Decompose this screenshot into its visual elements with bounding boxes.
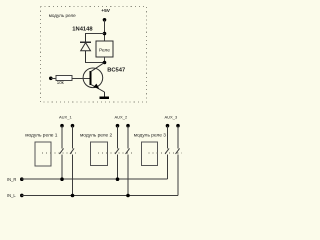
switch contact wires: module 2 left — [117, 126, 119, 149]
switch contact wires: module 3 right — [177, 126, 179, 149]
wire +5V down to node A — [104, 20, 106, 41]
wire resistor to base — [72, 77, 90, 79]
wire relay box bottom to node B — [104, 57, 106, 63]
IN_L terminal dot — [20, 194, 24, 198]
relay coil box: Реле — [96, 41, 113, 57]
diode D1 1N4148 — [80, 34, 91, 63]
module 2 coil box — [91, 142, 108, 165]
svg-text:IN_R: IN_R — [7, 177, 16, 182]
AUX_1 terminal dots — [60, 124, 64, 128]
IN_R terminal dot — [20, 177, 24, 181]
switch contact wires: module 2 right — [127, 126, 129, 149]
wire terminal to resistor — [51, 77, 56, 79]
emitter lead with arrow — [91, 84, 105, 92]
node B junction dot — [103, 61, 107, 65]
module 1 linkage dashes — [42, 152, 77, 154]
ground — [99, 97, 108, 99]
svg-text:BC547: BC547 — [107, 68, 125, 74]
switch contact wires: module 3 left — [167, 126, 169, 149]
svg-text:AUX_2: AUX_2 — [115, 115, 128, 120]
switch contact wires: module 1 left (to IN_R) — [60, 126, 180, 196]
svg-text:10k: 10k — [57, 80, 65, 85]
resistor R1 10k — [56, 76, 72, 81]
module 3 linkage dashes — [149, 152, 183, 154]
svg-text:AUX_3: AUX_3 — [165, 115, 178, 120]
svg-text:Реле: Реле — [99, 47, 110, 53]
svg-text:+5V: +5V — [101, 8, 110, 14]
junction dots on IN_L — [71, 194, 75, 198]
dashed border: relay module (top) — [41, 7, 147, 103]
svg-text:модуль реле 2: модуль реле 2 — [80, 133, 113, 139]
svg-text:1N4148: 1N4148 — [72, 27, 93, 33]
svg-text:модуль реле 3: модуль реле 3 — [134, 133, 167, 139]
switch contact wires: module 1 right (to IN_L) — [72, 126, 74, 149]
junction dots on IN_R — [60, 177, 64, 181]
transistor Q1 BC547 — [83, 63, 104, 97]
IN_R bus wire — [21, 178, 167, 180]
node A junction dot — [103, 32, 107, 36]
module 2 linkage dashes — [98, 152, 132, 154]
svg-text:AUX_1: AUX_1 — [59, 115, 72, 120]
module 3 coil box — [141, 142, 157, 165]
svg-text:IN_L: IN_L — [7, 193, 16, 198]
AUX_3 terminal dots — [166, 124, 170, 128]
AUX_2 terminal dots — [116, 124, 120, 128]
wire top node A to diode cathode branch — [85, 33, 105, 35]
+5V terminal dot — [103, 18, 107, 22]
input terminal dot (base) — [49, 77, 53, 81]
wire bottom: diode anode to node B — [85, 62, 105, 64]
svg-text:модуль реле: модуль реле — [49, 13, 76, 18]
collector lead to node B — [91, 63, 105, 72]
module 1 coil box — [35, 142, 51, 166]
IN_L bus wire — [21, 195, 178, 197]
svg-text:модуль реле 1: модуль реле 1 — [25, 133, 58, 139]
